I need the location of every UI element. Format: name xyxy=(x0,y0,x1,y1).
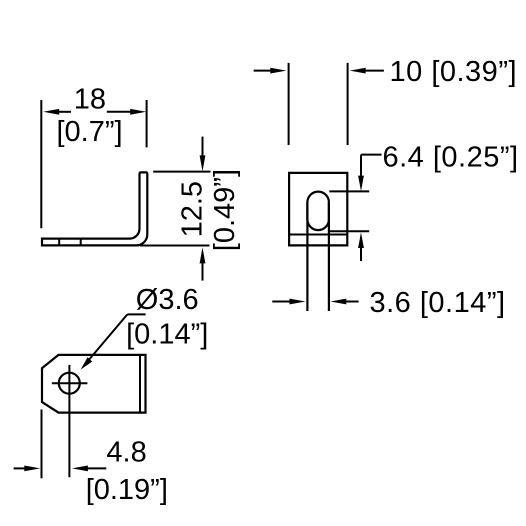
extension line 10 left xyxy=(288,63,290,145)
svg-text:10 [0.39”]: 10 [0.39”] xyxy=(390,56,518,88)
extension line 18 left xyxy=(40,100,42,228)
tab outline bottom view xyxy=(42,355,146,413)
leg left line xyxy=(306,202,308,311)
extension line 4.8 left xyxy=(41,410,43,479)
dim 4.8 left arrow xyxy=(14,467,27,469)
extension line 10 right xyxy=(347,63,349,145)
svg-text:[0.49”]: [0.49”] xyxy=(209,169,241,251)
slot top extension xyxy=(329,190,369,192)
dim 12.5 top arrow xyxy=(202,137,204,158)
crosshair vertical / center line xyxy=(68,365,70,477)
extension line 12.5 top xyxy=(153,171,210,173)
extension line 12.5 bottom xyxy=(140,245,210,247)
front view rect xyxy=(289,173,347,246)
side view L-bracket part xyxy=(42,172,147,245)
slot bottom extension xyxy=(329,230,369,232)
dim 3.6 left arrow xyxy=(272,301,292,303)
svg-text:[0.14”]: [0.14”] xyxy=(126,319,208,351)
6.4 bottom arrow xyxy=(358,232,364,248)
svg-text:6.4 [0.25”]: 6.4 [0.25”] xyxy=(383,142,519,174)
svg-text:12.5: 12.5 xyxy=(177,181,209,237)
dim 18 left arrow xyxy=(43,109,59,115)
seam tick 2 xyxy=(80,239,82,246)
slot stadium xyxy=(307,192,329,231)
dim 3.6 right arrow xyxy=(330,299,346,305)
extension line 18 right xyxy=(146,100,148,147)
seam tick 1 xyxy=(58,239,60,246)
dim 12.5 bottom arrow xyxy=(200,247,206,263)
svg-text:4.8: 4.8 xyxy=(106,437,146,469)
svg-text:18: 18 xyxy=(74,84,106,116)
leader Ø3.6 xyxy=(88,314,146,361)
svg-text:[0.19”]: [0.19”] xyxy=(86,474,168,506)
dim 10 right arrow xyxy=(350,68,366,74)
leg right line xyxy=(328,202,330,311)
svg-text:[0.7”]: [0.7”] xyxy=(57,116,123,148)
dim 10 left arrow xyxy=(254,70,273,72)
svg-text:3.6 [0.14”]: 3.6 [0.14”] xyxy=(370,287,506,319)
front view bend line xyxy=(289,234,347,236)
crosshair horizontal xyxy=(52,382,88,384)
dim 18 right arrow xyxy=(130,109,146,115)
dim 4.8 right arrow xyxy=(72,466,88,472)
6.4 leader xyxy=(361,155,382,177)
svg-text:Ø3.6: Ø3.6 xyxy=(136,284,199,316)
hole circle xyxy=(59,373,80,394)
tab bend line xyxy=(139,355,141,413)
